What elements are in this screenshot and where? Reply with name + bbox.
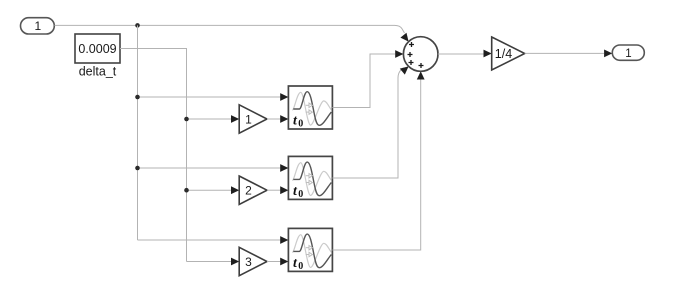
wire input port to sum (top branch)	[55, 25, 412, 44]
wire subsystem1 out to sum left input	[332, 50, 403, 107]
svg-text:1: 1	[625, 48, 631, 60]
sum block	[403, 37, 438, 72]
gain G3 value 3	[239, 247, 267, 275]
wire branch to subsystem3 in1	[138, 236, 289, 244]
wire constant to gain trunk	[120, 49, 187, 262]
svg-text:0.0009: 0.0009	[78, 42, 116, 56]
subsystem block 1 (t0 shifted-sine)	[288, 86, 332, 129]
output port Out1	[612, 45, 644, 60]
wire trunk from input down	[137, 25, 139, 240]
wire branch to gain2	[187, 186, 240, 194]
gain G2 value 2	[239, 176, 267, 204]
svg-text:2: 2	[245, 184, 252, 198]
subsystem block 2 (t0 shifted-sine)	[288, 156, 332, 199]
wire gain3 to subsystem3 in2	[267, 258, 288, 266]
wire branch to subsystem1 in1	[138, 93, 289, 101]
junction at input wire	[135, 23, 140, 28]
input port In1	[21, 18, 55, 34]
junction at trunk y168	[135, 166, 140, 171]
gain block 1/4	[492, 37, 525, 70]
svg-text:3: 3	[245, 255, 252, 269]
junction at trunk y97	[135, 95, 140, 100]
constant block delta_t value 0.0009	[75, 34, 120, 63]
svg-text:1: 1	[245, 112, 252, 126]
svg-text:delta_t: delta_t	[79, 65, 117, 79]
wire gain2 to subsystem2 in2	[267, 186, 288, 194]
gain G1 value 1	[239, 105, 267, 133]
svg-text:1: 1	[34, 19, 41, 33]
wire subsystem3 out to sum bottom input	[332, 71, 424, 250]
subsystem block 3 (t0 shifted-sine)	[288, 228, 332, 271]
junction at gain trunk y119	[184, 117, 189, 122]
wire gain 1/4 to output port	[525, 50, 613, 58]
wire branch to gain3	[187, 258, 240, 266]
wire sum to gain 1/4	[438, 50, 492, 58]
wire gain1 to subsystem1 in2	[267, 115, 288, 123]
junction at gain trunk y190	[184, 188, 189, 193]
wire subsystem2 out to sum lower-left input	[332, 63, 411, 178]
wire branch to gain1	[187, 115, 240, 123]
wire branch to subsystem2 in1	[138, 164, 289, 172]
svg-text:1/4: 1/4	[495, 47, 512, 61]
